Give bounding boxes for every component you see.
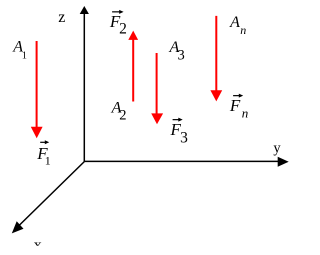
svg-text:A: A [229, 14, 240, 31]
x axis arrowhead [12, 221, 24, 233]
node A3 label [169, 39, 185, 64]
force Fn vector (red arrow down) [210, 16, 222, 102]
z axis [83, 13, 85, 162]
svg-text:2: 2 [119, 21, 127, 38]
z axis arrowhead [80, 6, 89, 14]
force F3 vector (red arrow down) [151, 53, 163, 124]
x axis label (partially clipped) [34, 237, 42, 254]
node A2 label [111, 100, 127, 124]
svg-text:y: y [273, 140, 281, 156]
svg-text:1: 1 [45, 154, 51, 168]
y axis arrowhead [278, 157, 289, 167]
svg-text:n: n [240, 23, 246, 37]
svg-text:n: n [242, 106, 249, 121]
force F2 label [109, 10, 127, 38]
svg-text:2: 2 [119, 108, 126, 124]
x axis [18, 162, 85, 227]
svg-text:F: F [229, 96, 241, 115]
y axis [84, 160, 279, 162]
svg-text:z: z [58, 9, 65, 26]
svg-text:3: 3 [178, 48, 185, 64]
node A1 label [12, 38, 27, 61]
force F1 vector (red arrow down) [31, 41, 43, 138]
force F1 label [36, 140, 50, 167]
force F2 vector (red arrow up) [128, 31, 138, 102]
force Fn label [229, 94, 248, 121]
node An label [229, 14, 246, 37]
force F3 label [170, 118, 189, 147]
svg-text:1: 1 [22, 51, 27, 62]
svg-text:3: 3 [180, 129, 188, 146]
